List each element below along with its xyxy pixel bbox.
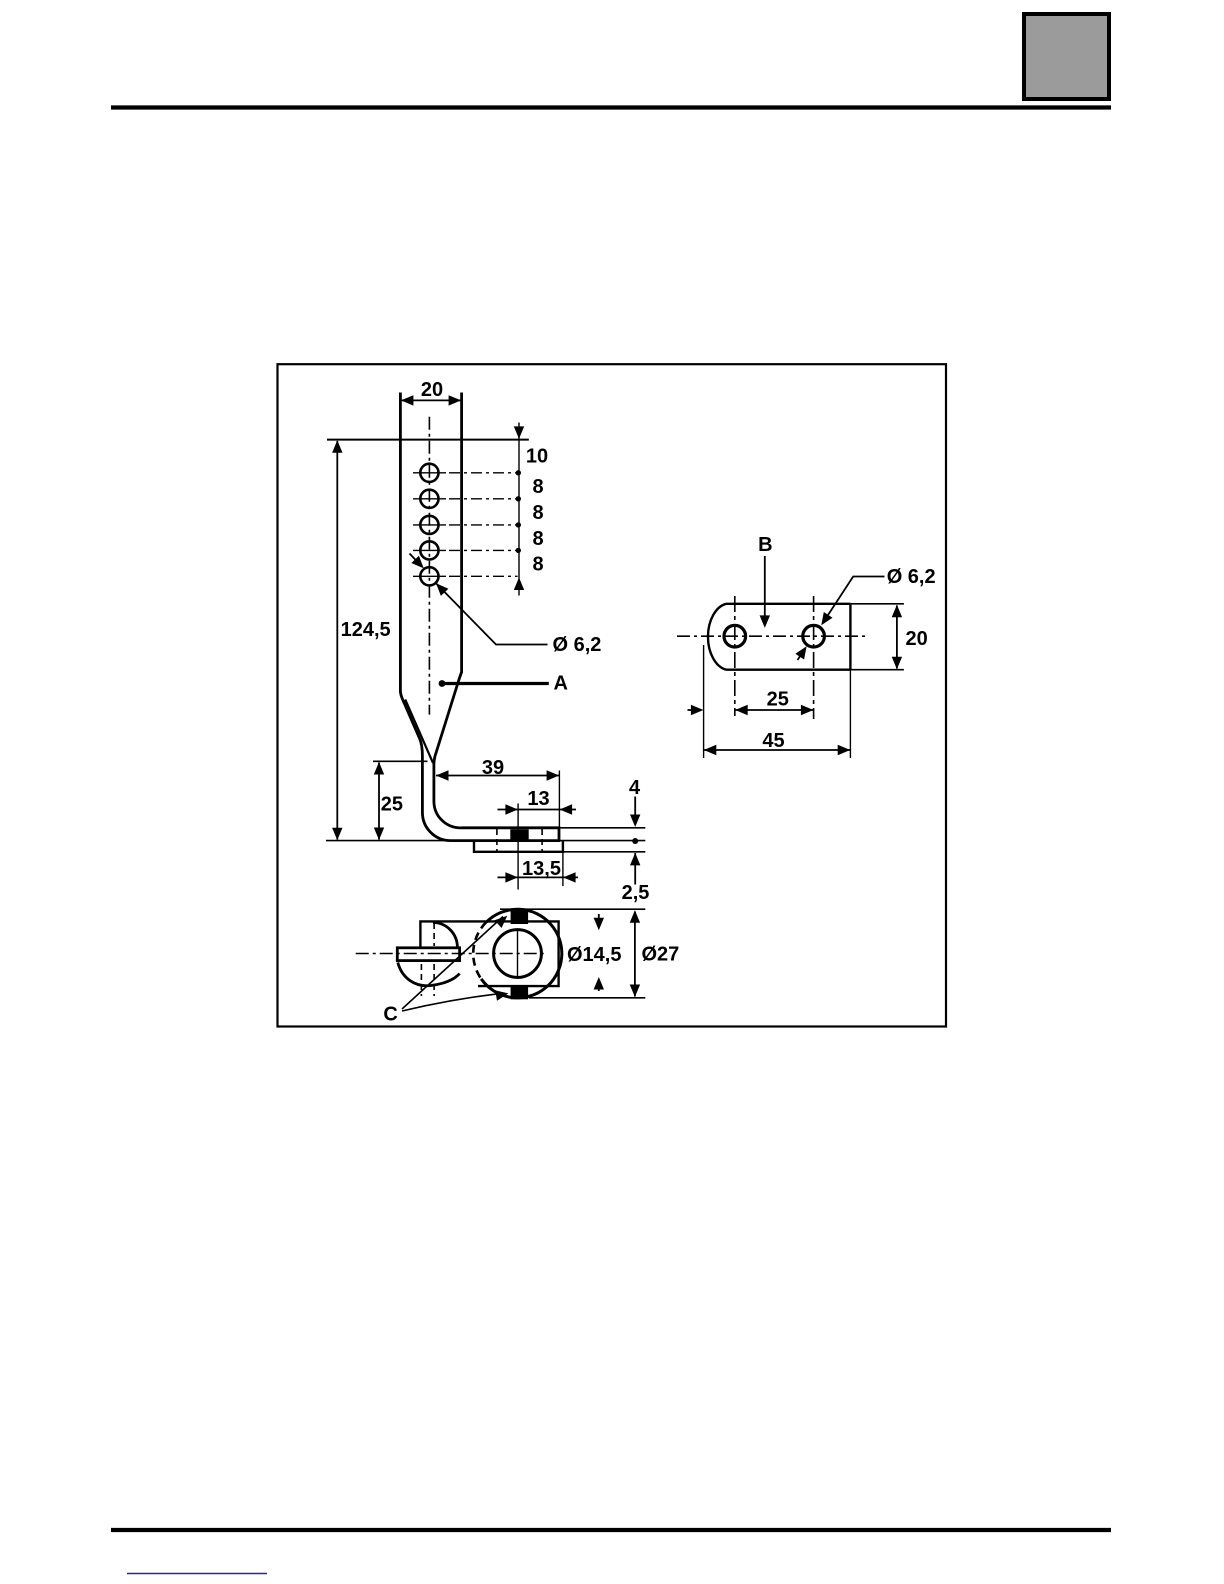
dim chain arrow down — [514, 426, 524, 439]
lower wing arc — [398, 963, 460, 986]
ext line B left — [703, 645, 705, 758]
dim 20 B line — [896, 606, 898, 669]
dim 4 arrow down — [630, 815, 640, 828]
hole 3 side view — [413, 516, 518, 534]
dim 13 arrow left — [505, 804, 518, 814]
bottom view horizontal centerline — [356, 953, 545, 955]
hidden edge lower wing right — [433, 964, 435, 996]
dim 20 arrow left — [401, 395, 414, 405]
label C leader lower — [402, 990, 508, 1011]
rubber pad top (black) — [511, 910, 528, 925]
top reference line — [327, 439, 529, 441]
svg-text:B: B — [758, 534, 772, 556]
svg-text:2,5: 2,5 — [622, 882, 650, 904]
dim chain vertical line — [518, 423, 520, 596]
dim 8 text 4 — [533, 554, 544, 576]
dim 13 arrow right — [560, 804, 573, 814]
svg-text:13,5: 13,5 — [522, 858, 561, 880]
dim chain dot 4 — [516, 548, 521, 553]
crosshair vertical — [517, 929, 519, 979]
big circle solid arc — [481, 909, 562, 998]
ext line B right — [849, 670, 851, 758]
dim 25 B line — [735, 709, 814, 711]
dim 20 text — [421, 379, 443, 401]
svg-text:20: 20 — [906, 628, 928, 650]
dim 14.5 text — [567, 944, 621, 966]
dim 27 text — [642, 944, 680, 966]
dim 2.5 arrow up — [630, 853, 640, 866]
dim 10 text — [526, 445, 548, 467]
dim 25 arrow down — [374, 828, 384, 841]
baseline reference — [326, 840, 452, 842]
bolt shank — [397, 948, 459, 961]
dim chain dot 1 — [516, 470, 521, 475]
dim 4 text — [629, 777, 641, 799]
dim 20 arrow right — [449, 395, 462, 405]
twist transition inner line — [405, 700, 433, 764]
svg-text:8: 8 — [533, 528, 544, 550]
dim chain arrow up — [514, 578, 524, 591]
dim 27 arrow up — [630, 910, 640, 923]
dim 14.5 lower — [594, 977, 604, 991]
svg-text:25: 25 — [767, 689, 789, 711]
dim 39 text — [482, 757, 504, 779]
plate B hole right — [803, 625, 825, 647]
dim 14.5 upper — [594, 914, 604, 930]
dim 45 arrow right — [838, 745, 851, 755]
dim 25 B arrow right — [801, 705, 814, 715]
dim 27 arrow down — [630, 985, 640, 998]
dim 45 line — [704, 749, 851, 751]
extension line 39 right — [558, 771, 560, 828]
hole 4 side view — [413, 541, 518, 559]
plate B outline — [708, 604, 850, 670]
hidden edge lower wing left — [420, 964, 422, 996]
dim 124.5 text — [341, 619, 391, 641]
plate B hole right centerline — [813, 596, 815, 719]
rubber pad section (black) — [510, 829, 528, 841]
vertical centerline side view — [428, 417, 430, 715]
label A leader — [439, 680, 549, 687]
dim 20 B arrow up — [892, 605, 902, 618]
dim 13.5 arrow right — [563, 872, 576, 882]
dim 2.5 text — [622, 882, 650, 904]
svg-text:Ø14,5: Ø14,5 — [567, 944, 621, 966]
bottom tangent extension — [529, 997, 645, 999]
arm bottom edge extension — [559, 840, 645, 842]
svg-text:8: 8 — [533, 554, 544, 576]
label A text — [554, 673, 568, 695]
label B text — [758, 534, 772, 556]
dim 124.5 line — [336, 441, 338, 840]
clamp body rectangle — [420, 921, 558, 986]
dim 8 text 2 — [533, 502, 544, 524]
dim chain dot 3 — [516, 522, 521, 527]
top tangent extension — [500, 908, 645, 910]
blue footnote rule — [127, 1573, 267, 1575]
svg-text:Ø 6,2: Ø 6,2 — [553, 634, 602, 656]
dim 25 B arrow left — [735, 705, 748, 715]
hidden edge upper wing — [433, 923, 435, 946]
dia 6.2 B lower arrow — [795, 646, 806, 660]
svg-text:25: 25 — [381, 794, 403, 816]
dim 13.5 text — [522, 858, 561, 880]
inner circle dia 14.5 — [494, 930, 542, 978]
dim 20 B arrow down — [892, 657, 902, 670]
dim 13.5 arrow left — [505, 872, 518, 882]
dim 8 text 3 — [533, 528, 544, 550]
dia 6.2 B text — [887, 566, 936, 588]
svg-text:8: 8 — [533, 502, 544, 524]
dim 8 text 1 — [533, 476, 544, 498]
svg-text:45: 45 — [762, 730, 784, 752]
dim 39 arrow right — [547, 770, 560, 780]
dim 13.5 line — [498, 876, 579, 878]
svg-text:10: 10 — [526, 445, 548, 467]
plate B hole left — [724, 625, 746, 647]
dim 124.5 arrow down — [332, 828, 342, 841]
label C text — [383, 1004, 397, 1026]
dim 13 line — [498, 809, 577, 811]
label B leader — [760, 556, 770, 628]
extension line 13.5 right — [562, 852, 564, 886]
arm top edge extension — [559, 827, 645, 829]
hidden slot edge left — [496, 829, 498, 852]
part outline side view — [400, 393, 559, 841]
plate B top extension — [850, 603, 904, 605]
dia 6.2 leader lower — [436, 583, 548, 644]
plate B bottom extension — [850, 669, 904, 671]
dia 6.2 leader arrow upper — [410, 554, 424, 569]
dim 2.5 line — [634, 853, 636, 885]
label C leader upper — [402, 916, 507, 1009]
footer rule — [111, 1528, 1111, 1532]
svg-text:Ø27: Ø27 — [642, 944, 680, 966]
plate bottom extension — [563, 851, 645, 853]
svg-text:20: 20 — [421, 379, 443, 401]
upper wing arc — [433, 922, 457, 947]
dim 39 line — [436, 775, 559, 777]
drawing frame — [278, 364, 947, 1026]
dim 20 line — [400, 399, 461, 401]
dim chain dot 2 — [516, 496, 521, 501]
svg-text:Ø 6,2: Ø 6,2 — [887, 566, 936, 588]
plate B hole left centerline — [734, 596, 736, 716]
dia 6.2 B leader — [821, 577, 884, 626]
waist tick line 25 — [373, 760, 428, 762]
svg-text:39: 39 — [482, 757, 504, 779]
dim 13 text — [527, 788, 549, 810]
plate B horizontal centerline — [677, 635, 866, 637]
dia 6.2 side text — [553, 634, 602, 656]
header rule — [111, 105, 1111, 109]
dim 45 arrow left — [704, 745, 717, 755]
svg-text:13: 13 — [527, 788, 549, 810]
gray square top right — [1024, 14, 1109, 99]
dim 4 dot — [632, 838, 638, 844]
hole 5 side view — [413, 567, 518, 585]
dim 25 B text — [767, 689, 789, 711]
hidden slot edge right — [541, 829, 543, 852]
dim 25 arrow up — [374, 762, 384, 775]
svg-text:A: A — [554, 673, 568, 695]
dim 25 line — [378, 763, 380, 840]
dim 25 text — [381, 794, 403, 816]
extension line slot left — [517, 804, 519, 890]
dim 4 line — [634, 797, 636, 819]
dim 27 line — [634, 912, 636, 997]
dim 45 text — [762, 730, 784, 752]
dim 124.5 arrow up — [332, 440, 342, 453]
dim 39 arrow left — [436, 770, 449, 780]
dim 25 B outside arrow — [688, 705, 704, 715]
svg-text:8: 8 — [533, 476, 544, 498]
rubber pad bottom (black) — [511, 986, 528, 1000]
support plate — [474, 841, 563, 852]
hole 1 side view — [413, 464, 518, 482]
big circle hidden arc — [473, 922, 486, 979]
svg-text:124,5: 124,5 — [341, 619, 391, 641]
svg-text:C: C — [383, 1004, 397, 1026]
hole 2 side view — [413, 490, 518, 508]
svg-text:4: 4 — [629, 777, 641, 799]
dim 20 B text — [906, 628, 928, 650]
